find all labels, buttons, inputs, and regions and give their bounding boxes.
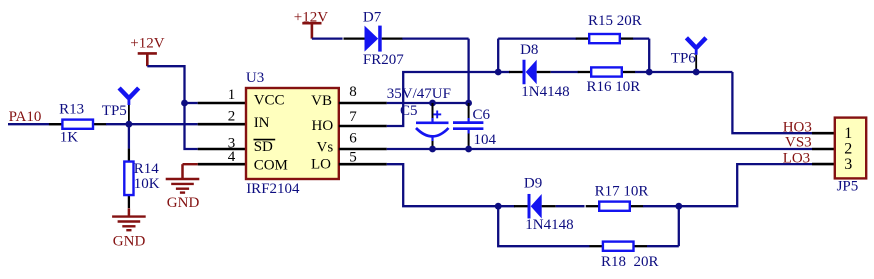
svg-text:8: 8 [349, 84, 357, 100]
svg-text:1N4148: 1N4148 [521, 84, 569, 100]
svg-text:C5: C5 [400, 103, 418, 119]
svg-text:COM: COM [254, 157, 288, 173]
svg-text:FR207: FR207 [363, 52, 404, 68]
svg-text:R14: R14 [134, 161, 160, 177]
svg-text:R13: R13 [59, 101, 84, 117]
svg-text:HO: HO [312, 118, 334, 134]
svg-text:104: 104 [474, 132, 497, 148]
svg-text:+12V: +12V [130, 36, 164, 52]
svg-text:6: 6 [349, 131, 357, 147]
svg-text:C6: C6 [473, 107, 491, 123]
svg-text:R16 10R: R16 10R [587, 79, 641, 95]
svg-text:VCC: VCC [254, 92, 285, 108]
svg-text:D9: D9 [524, 176, 542, 192]
svg-text:GND: GND [113, 234, 146, 250]
svg-text:PA10: PA10 [9, 109, 42, 125]
svg-text:7: 7 [349, 109, 357, 125]
svg-text:R17 10R: R17 10R [595, 183, 649, 199]
svg-text:1: 1 [228, 87, 236, 103]
svg-text:TP5: TP5 [102, 103, 127, 119]
svg-text:R18 20R: R18 20R [601, 254, 659, 270]
svg-text:SD: SD [254, 139, 273, 155]
svg-text:GND: GND [167, 195, 200, 211]
svg-text:D8: D8 [520, 42, 538, 58]
svg-text:JP5: JP5 [837, 179, 859, 195]
svg-text:D7: D7 [363, 9, 382, 25]
svg-text:5: 5 [349, 149, 357, 165]
svg-text:VB: VB [311, 93, 332, 109]
svg-text:2: 2 [228, 108, 236, 124]
svg-text:VS3: VS3 [785, 134, 812, 150]
svg-text:3: 3 [844, 156, 852, 173]
svg-text:IN: IN [254, 115, 270, 131]
svg-text:LO3: LO3 [783, 151, 811, 167]
svg-text:IRF2104: IRF2104 [246, 181, 300, 197]
svg-text:4: 4 [228, 149, 236, 165]
svg-text:+12V: +12V [294, 9, 328, 25]
svg-text:U3: U3 [246, 70, 264, 86]
svg-text:10K: 10K [134, 176, 160, 192]
svg-text:HO3: HO3 [783, 119, 812, 135]
svg-text:R15 20R: R15 20R [588, 13, 642, 29]
svg-text:1N4148: 1N4148 [525, 217, 573, 233]
svg-text:TP6: TP6 [671, 51, 697, 67]
svg-text:1: 1 [844, 125, 852, 142]
svg-text:1K: 1K [60, 129, 79, 145]
svg-text:LO: LO [311, 157, 331, 173]
svg-text:35V/47UF: 35V/47UF [387, 86, 451, 102]
svg-text:Vs: Vs [317, 139, 334, 155]
svg-text:2: 2 [844, 140, 852, 157]
